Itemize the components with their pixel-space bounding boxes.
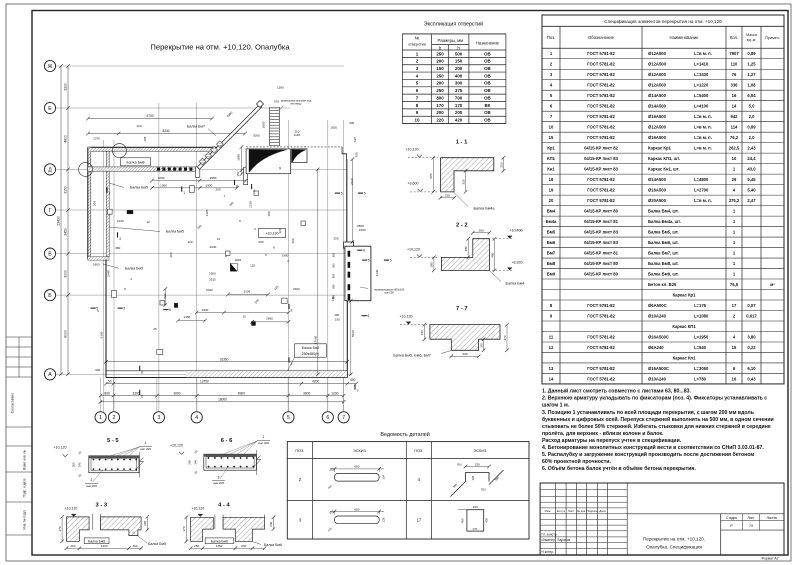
svg-text:ГОСТ 5781-82: ГОСТ 5781-82	[587, 83, 615, 88]
svg-text:пролёта, для верхних - вблизи: пролёта, для верхних - вблизи колонн и б…	[542, 430, 664, 437]
svg-text:Кн1: Кн1	[547, 166, 555, 171]
section 3-3 dims	[66, 547, 141, 549]
svg-text:ОВ: ОВ	[484, 110, 491, 115]
svg-text:R16: R16	[457, 464, 462, 467]
row grid lines	[56, 65, 345, 67]
node circle axis1	[79, 162, 93, 176]
svg-text:6. Объём бетона балок учтён в: 6. Объём бетона балок учтён в объёме бет…	[542, 465, 696, 472]
interior dim 1630	[197, 312, 289, 314]
left wall bottom cap	[88, 257, 109, 261]
svg-text:Н.контр.: Н.контр.	[542, 550, 554, 554]
svg-text:1140: 1140	[294, 133, 301, 137]
section 7-7 body	[430, 325, 500, 351]
svg-text:Ведомость деталей: Ведомость деталей	[380, 431, 429, 438]
column grid lines	[102, 140, 104, 412]
svg-text:Балка Бм9: Балка Бм9	[125, 266, 143, 270]
svg-text:250: 250	[194, 544, 199, 548]
svg-text:2: 2	[291, 309, 293, 313]
sketch pos4	[451, 473, 490, 497]
left dimension chain	[67, 66, 69, 374]
svg-text:0,43: 0,43	[747, 376, 756, 381]
stair foot pier	[244, 167, 248, 185]
svg-text:11: 11	[549, 334, 554, 339]
svg-text:Балка Бм6, шт.: Балка Бм6, шт.	[648, 240, 679, 245]
svg-text:850: 850	[332, 294, 336, 299]
svg-text:4800: 4800	[63, 135, 67, 143]
svg-text:1: 1	[183, 191, 185, 195]
svg-text:L=1430: L=1430	[694, 72, 709, 77]
svg-text:стыковать не более 50% стержне: стыковать не более 50% стержней. Избегат…	[542, 423, 771, 430]
svg-text:15: 15	[549, 135, 554, 140]
beam label Бм8	[121, 158, 151, 166]
svg-text:43,0: 43,0	[747, 166, 756, 171]
top wall	[88, 147, 217, 151]
svg-text:ЭСКИЗ: ЭСКИЗ	[474, 449, 487, 453]
section 6-6 body	[204, 454, 256, 470]
svg-text:60% проектной прочности.: 60% проектной прочности.	[542, 458, 611, 465]
svg-text:Опалубка. Спецификация: Опалубка. Спецификация	[646, 545, 702, 550]
svg-text:2515: 2515	[209, 278, 216, 282]
svg-text:1,27: 1,27	[747, 72, 756, 77]
svg-text:м³: м³	[770, 282, 775, 287]
svg-text:1,25: 1,25	[747, 62, 756, 67]
svg-text:400: 400	[462, 352, 467, 356]
svg-text:16: 16	[732, 376, 737, 381]
svg-text:5,45: 5,45	[747, 177, 756, 182]
svg-text:200: 200	[93, 201, 97, 206]
diagonal apex block	[256, 100, 263, 107]
svg-text:200: 200	[72, 462, 76, 467]
svg-text:Подп. и дата: Подп. и дата	[23, 478, 27, 497]
svg-text:Обозначение: Обозначение	[588, 35, 615, 40]
svg-text:76,5: 76,5	[730, 282, 739, 287]
svg-text:лестницу: лестницу	[290, 103, 302, 106]
svg-text:Ø16А500С: Ø16А500С	[648, 334, 669, 339]
svg-text:1: 1	[99, 415, 102, 421]
svg-text:4. Бетонирование монолитных ко: 4. Бетонирование монолитных конструкций …	[542, 444, 764, 451]
svg-text:Балка Бм9, шт.: Балка Бм9, шт.	[648, 271, 679, 276]
svg-text:3150: 3150	[63, 186, 67, 194]
svg-text:260: 260	[132, 544, 137, 548]
sketch pos2	[335, 473, 380, 481]
svg-text:Изм.: Изм.	[545, 509, 552, 513]
svg-text:114: 114	[731, 125, 738, 130]
junction box	[196, 167, 200, 178]
svg-text:Ø14А500: Ø14А500	[648, 104, 667, 109]
svg-text:L=1220: L=1220	[694, 83, 709, 88]
svg-text:04/15-КР лист 83: 04/15-КР лист 83	[584, 166, 618, 171]
svg-text:ГОСТ 5781-82: ГОСТ 5781-82	[587, 376, 615, 381]
svg-text:Бм6: Бм6	[547, 240, 556, 245]
svg-text:260: 260	[479, 229, 484, 233]
svg-text:6: 6	[141, 395, 143, 399]
svg-text:6 - 6: 6 - 6	[221, 438, 233, 444]
svg-text:5: 5	[368, 259, 370, 263]
sketch pos3	[335, 516, 380, 524]
svg-text:ГОСТ 5781-82: ГОСТ 5781-82	[587, 51, 615, 56]
svg-text:+10,120: +10,120	[170, 444, 183, 448]
svg-text:280: 280	[464, 246, 468, 251]
svg-text:1990: 1990	[282, 253, 289, 257]
svg-text:320: 320	[461, 179, 465, 184]
section 4-4 break lines	[214, 515, 216, 530]
svg-text:Ø20А500: Ø20А500	[648, 198, 667, 203]
svg-text:Ø6А240: Ø6А240	[648, 345, 664, 350]
svg-text:14: 14	[549, 376, 554, 381]
svg-text:1 - 1: 1 - 1	[456, 140, 468, 146]
svg-text:1,08: 1,08	[747, 83, 756, 88]
svg-text:180: 180	[267, 211, 271, 216]
svg-text:0,22: 0,22	[747, 345, 756, 350]
svg-text:Лист: Лист	[748, 516, 755, 520]
svg-text:А: А	[48, 372, 52, 378]
svg-text:ГОСТ 5781-82: ГОСТ 5781-82	[587, 345, 615, 350]
svg-text:5. Распалубку и загружение кон: 5. Распалубку и загружение конструкций п…	[542, 451, 754, 458]
svg-text:ГОСТ 5781-82: ГОСТ 5781-82	[587, 334, 615, 339]
svg-text:шаг 200: шаг 200	[213, 481, 224, 485]
svg-text:04/15-КР лист 80: 04/15-КР лист 80	[584, 208, 618, 213]
svg-text:шагом 1 м.: шагом 1 м.	[542, 403, 570, 409]
svg-text:200: 200	[258, 240, 263, 244]
svg-text:5: 5	[364, 192, 366, 196]
interior dim 17660	[317, 169, 319, 374]
svg-text:820: 820	[163, 293, 167, 298]
svg-text:10: 10	[217, 237, 221, 241]
svg-text:520: 520	[429, 173, 433, 178]
svg-text:L=1410: L=1410	[694, 62, 709, 67]
section 5-5 rebar dots	[93, 459, 94, 460]
svg-text:Балка Бм8: Балка Бм8	[88, 539, 105, 543]
right bay	[345, 246, 371, 301]
svg-text:Каркас Кп1: Каркас Кп1	[673, 355, 696, 360]
top-right slab edge	[246, 146, 342, 148]
svg-text:2: 2	[91, 478, 93, 482]
svg-text:3000: 3000	[173, 391, 180, 395]
section 4-4 label Бм6 box	[205, 538, 233, 544]
svg-text:700: 700	[455, 95, 463, 100]
svg-text:170: 170	[472, 527, 477, 531]
svg-text:18000: 18000	[218, 398, 227, 402]
interior dim 820	[164, 289, 166, 305]
svg-text:4: 4	[195, 415, 198, 421]
svg-text:ПОЗ.: ПОЗ.	[414, 449, 423, 453]
svg-text:Ø14А500: Ø14А500	[648, 177, 667, 182]
svg-text:150: 150	[436, 66, 444, 71]
svg-text:Балка Бм8, шт.: Балка Бм8, шт.	[648, 261, 679, 266]
plan black marks	[127, 210, 133, 214]
svg-text:370: 370	[58, 526, 62, 531]
svg-text:04/15-КР лист 83: 04/15-КР лист 83	[584, 156, 618, 161]
svg-text:4240: 4240	[375, 269, 379, 276]
svg-text:650: 650	[354, 507, 359, 511]
svg-text:8330: 8330	[162, 129, 169, 133]
svg-text:1230: 1230	[248, 201, 252, 208]
svg-text:2 - 2: 2 - 2	[456, 223, 468, 229]
svg-text:400: 400	[350, 378, 356, 382]
right dim line 2630	[351, 159, 353, 242]
left slab edge	[105, 260, 107, 378]
svg-text:ОВ: ОВ	[484, 66, 491, 71]
svg-text:L=в м. п.: L=в м. п.	[694, 125, 712, 130]
svg-text:Примеч.: Примеч.	[765, 36, 780, 40]
svg-text:200: 200	[143, 520, 147, 525]
svg-text:6: 6	[141, 371, 143, 375]
svg-text:L=в м. п.: L=в м. п.	[694, 51, 712, 56]
svg-text:300: 300	[455, 81, 463, 86]
svg-text:200: 200	[455, 110, 463, 115]
svg-text:Расход арматуры на перепуск уч: Расход арматуры на перепуск учтен в спец…	[542, 437, 682, 444]
svg-text:7807: 7807	[729, 51, 739, 56]
svg-text:Спецификация элементов перекры: Спецификация элементов перекрытия на отм…	[604, 19, 722, 24]
svg-text:3300: 3300	[132, 391, 139, 395]
svg-text:Кол.уч: Кол.уч	[557, 509, 566, 513]
svg-text:800: 800	[436, 95, 444, 100]
svg-text:150: 150	[455, 59, 463, 64]
svg-text:10: 10	[732, 156, 737, 161]
svg-text:420: 420	[455, 118, 463, 123]
svg-text:Г: Г	[49, 208, 52, 214]
svg-text:4: 4	[253, 189, 255, 193]
svg-text:6360: 6360	[100, 331, 104, 338]
svg-text:24,4: 24,4	[747, 156, 756, 161]
row axis bubbles	[44, 60, 55, 71]
svg-text:942: 942	[731, 114, 739, 119]
svg-text:ГОСТ 5781-82: ГОСТ 5781-82	[587, 104, 615, 109]
svg-text:3000: 3000	[63, 270, 67, 278]
svg-text:200: 200	[188, 460, 192, 465]
svg-text:+10,120: +10,120	[191, 507, 204, 511]
svg-text:Дата: Дата	[599, 509, 606, 513]
dimension 16360	[106, 361, 347, 363]
left wall	[88, 147, 91, 259]
svg-text:120: 120	[187, 240, 192, 244]
svg-text:2042: 2042	[206, 288, 213, 292]
svg-text:Ø12А500: Ø12А500	[648, 83, 667, 88]
svg-text:+10,120: +10,120	[53, 446, 66, 450]
svg-text:320: 320	[278, 228, 282, 233]
svg-text:79: 79	[749, 524, 753, 528]
svg-text:230: 230	[475, 462, 480, 466]
svg-text:375,2: 375,2	[729, 198, 740, 203]
svg-text:Каркас КП1, шт.: Каркас КП1, шт.	[648, 156, 680, 161]
svg-text:1590: 1590	[359, 228, 366, 232]
svg-text:150: 150	[335, 318, 340, 322]
svg-text:220: 220	[445, 194, 450, 198]
svg-text:Ø14А500: Ø14А500	[648, 93, 667, 98]
svg-text:L=3050: L=3050	[694, 366, 709, 371]
svg-text:Назначение: Назначение	[476, 40, 500, 45]
svg-text:ГОСТ 5781-82: ГОСТ 5781-82	[587, 135, 615, 140]
svg-text:Наименование: Наименование	[669, 35, 699, 40]
svg-text:400: 400	[349, 121, 354, 125]
svg-text:3: 3	[119, 237, 121, 241]
svg-text:Поз.: Поз.	[547, 35, 555, 40]
svg-text:ГОСТ 5781-82: ГОСТ 5781-82	[587, 198, 615, 203]
svg-text:690: 690	[291, 238, 295, 243]
svg-text:23430: 23430	[56, 216, 60, 226]
svg-text:670: 670	[274, 100, 279, 104]
svg-text:1370: 1370	[93, 137, 100, 141]
svg-text:1020: 1020	[330, 126, 337, 130]
svg-text:Ø16А500С: Ø16А500С	[648, 366, 669, 371]
svg-text:ОВ: ОВ	[484, 51, 491, 56]
svg-text:400: 400	[455, 73, 463, 78]
svg-text:5630: 5630	[351, 330, 355, 337]
svg-text:262,5: 262,5	[729, 146, 740, 151]
right dim line 5630	[350, 301, 352, 375]
svg-text:2660: 2660	[266, 317, 273, 321]
svg-text:Балка Бм7: Балка Бм7	[187, 124, 205, 128]
section 6-6 rebar dots	[208, 457, 209, 458]
svg-text:5: 5	[341, 192, 343, 196]
svg-text:Ø12А500: Ø12А500	[648, 125, 667, 130]
svg-text:10: 10	[242, 315, 246, 319]
svg-text:20: 20	[549, 198, 554, 203]
svg-text:2500: 2500	[209, 272, 216, 276]
svg-text:128: 128	[382, 517, 386, 522]
svg-text:850: 850	[332, 273, 336, 278]
svg-text:Балка Бм5, шт.: Балка Бм5, шт.	[648, 229, 679, 234]
section 3-3 body left	[66, 517, 89, 541]
svg-text:200: 200	[455, 66, 463, 71]
svg-text:+10,400: +10,400	[509, 229, 522, 233]
svg-text:10: 10	[549, 125, 554, 130]
svg-text:+9,600: +9,600	[407, 181, 418, 185]
svg-text:2. Верхнюю арматуру укладывать: 2. Верхнюю арматуру укладывать по фиксат…	[542, 395, 767, 402]
svg-text:шаг 200: шаг 200	[258, 441, 269, 445]
svg-text:L=в м. п.: L=в м. п.	[694, 198, 712, 203]
svg-text:200: 200	[70, 544, 75, 548]
svg-text:14: 14	[732, 104, 737, 109]
svg-text:370: 370	[182, 526, 186, 531]
bottom bubble leaders	[100, 378, 102, 412]
top dimension 8330	[88, 133, 245, 135]
svg-text:250: 250	[436, 73, 444, 78]
svg-text:76: 76	[732, 72, 737, 77]
svg-text:140: 140	[78, 462, 82, 467]
svg-text:170: 170	[455, 103, 463, 108]
openings table	[401, 34, 403, 124]
svg-text:3 - 3: 3 - 3	[95, 502, 107, 508]
svg-text:410: 410	[136, 124, 141, 128]
svg-text:128: 128	[471, 475, 475, 480]
svg-text:+10,120: +10,120	[407, 247, 420, 251]
svg-text:19: 19	[549, 187, 554, 192]
svg-text:650: 650	[354, 465, 359, 469]
svg-text:ГОСТ 5781-82: ГОСТ 5781-82	[587, 114, 615, 119]
svg-text:Балка Бм6: Балка Бм6	[264, 543, 282, 547]
svg-text:+10,120: +10,120	[405, 148, 418, 152]
bottom overall dimension 18000	[101, 401, 344, 403]
opening vertical dim	[241, 147, 243, 174]
svg-text:135: 135	[479, 343, 483, 348]
svg-text:5,0: 5,0	[749, 104, 755, 109]
svg-text:В: В	[48, 252, 52, 258]
svg-text:Каркас Кн1, шт.: Каркас Кн1, шт.	[648, 166, 680, 171]
svg-text:150: 150	[236, 171, 240, 176]
svg-text:1360: 1360	[160, 184, 167, 188]
svg-text:2580: 2580	[210, 176, 217, 180]
section flags on plan	[91, 307, 96, 309]
svg-text:L=в м. п.: L=в м. п.	[694, 135, 712, 140]
section 2-2 dims	[473, 232, 490, 234]
svg-text:800: 800	[104, 391, 110, 395]
svg-text:3000: 3000	[253, 134, 260, 138]
svg-text:1200: 1200	[331, 391, 338, 395]
svg-text:L=в м. п.: L=в м. п.	[694, 114, 712, 119]
svg-text:5: 5	[124, 307, 126, 311]
svg-text:2100: 2100	[243, 289, 250, 293]
svg-text:04/15-КР лист 81: 04/15-КР лист 81	[584, 250, 618, 255]
svg-text:ПОЗ.: ПОЗ.	[295, 449, 304, 453]
svg-text:Бм5: Бм5	[547, 229, 556, 234]
svg-text:Согласовано: Согласовано	[11, 393, 15, 414]
svg-text:L=1950: L=1950	[694, 334, 709, 339]
svg-text:6900: 6900	[238, 391, 245, 395]
svg-text:850: 850	[332, 252, 336, 257]
node circle axis2	[112, 144, 126, 158]
beam Бм5 vertical	[106, 151, 109, 256]
svg-text:Взам. инв. №: Взам. инв. №	[23, 450, 27, 470]
svg-text:500: 500	[455, 51, 463, 56]
svg-text:Бм7: Бм7	[547, 250, 556, 255]
svg-text:0,07: 0,07	[747, 303, 756, 308]
stair rungs	[269, 107, 271, 146]
diagonal wall	[197, 104, 262, 169]
beam Бм8 horizontal	[88, 167, 196, 171]
svg-text:3450: 3450	[63, 228, 67, 236]
svg-text:Балка Бм4а: Балка Бм4а	[473, 207, 495, 211]
svg-text:17: 17	[417, 517, 422, 522]
svg-text:№: №	[415, 36, 420, 41]
svg-text:5: 5	[390, 259, 392, 263]
section 5-5 break arrow	[137, 458, 144, 469]
svg-text:ОВ: ОВ	[484, 95, 491, 100]
svg-text:3: 3	[218, 475, 220, 479]
svg-text:ГОСТ 5781-82: ГОСТ 5781-82	[587, 366, 615, 371]
svg-text:3. Позицию 1 устанавливать по: 3. Позицию 1 устанавливать по всей площа…	[542, 409, 754, 416]
section 3-3 break lines	[92, 514, 94, 530]
svg-text:200: 200	[436, 59, 444, 64]
svg-text:КП1: КП1	[547, 156, 556, 161]
svg-text:L=2700: L=2700	[694, 187, 709, 192]
svg-text:ГОСТ 5781-82: ГОСТ 5781-82	[587, 313, 615, 318]
svg-text:120: 120	[250, 264, 255, 268]
svg-text:ОВ: ОВ	[484, 73, 491, 78]
title block frame	[540, 483, 784, 555]
section 3-3 label Бм8	[84, 538, 109, 544]
svg-text:134: 134	[382, 475, 386, 480]
svg-text:Каркас КП1: Каркас КП1	[672, 324, 696, 329]
section 4-4 dims	[191, 547, 265, 549]
svg-text:1992: 1992	[234, 258, 241, 262]
svg-text:ГОСТ 5781-82: ГОСТ 5781-82	[587, 303, 615, 308]
svg-text:7: 7	[342, 415, 345, 421]
svg-text:ОВ: ОВ	[484, 88, 491, 93]
svg-text:+10,120: +10,120	[265, 232, 278, 236]
beam Бм4 bottom band	[106, 370, 347, 372]
svg-text:1050: 1050	[158, 176, 165, 180]
svg-text:4 - 4: 4 - 4	[218, 502, 230, 508]
svg-text:6,10: 6,10	[747, 366, 756, 371]
column axis bubbles	[95, 412, 106, 423]
svg-text:Балка Бм4: Балка Бм4	[302, 346, 320, 350]
svg-text:7: 7	[357, 389, 359, 393]
svg-text:200: 200	[215, 188, 220, 192]
svg-text:ВК: ВК	[484, 103, 490, 108]
svg-text:8: 8	[236, 185, 238, 189]
svg-text:Каркас Кр1: Каркас Кр1	[673, 292, 697, 297]
